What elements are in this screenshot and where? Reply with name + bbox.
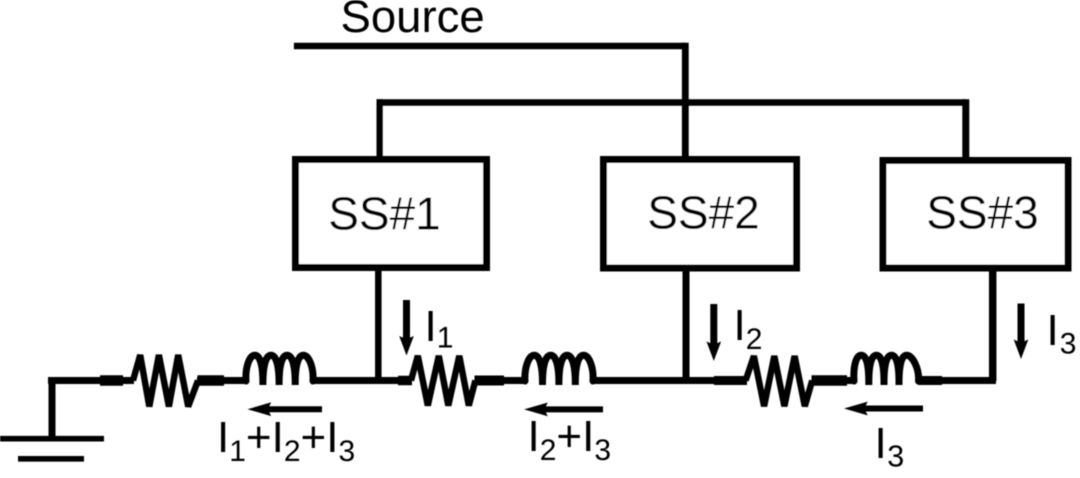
wire source vertical drop to SS#2 — [682, 43, 689, 157]
block SS#1 — [296, 160, 487, 268]
block SS#3 — [883, 161, 1068, 269]
wire SS#3 to ground bus — [989, 272, 997, 382]
resistor R1 — [133, 355, 198, 407]
wire bus drop to SS#1 — [377, 99, 383, 157]
wire distribution bus horizontal — [377, 99, 966, 106]
current arrow sum1 left — [248, 402, 323, 416]
junction blob after L3 — [918, 376, 942, 385]
wire source horizontal feeder — [294, 43, 686, 50]
ground stub wire — [49, 381, 56, 441]
wire SS#2 to ground bus — [683, 272, 690, 382]
svg-text:SS#3: SS#3 — [926, 187, 1039, 239]
ground bar 1 — [0, 436, 104, 442]
current arrow sum2 left — [524, 403, 603, 417]
svg-text:SS#1: SS#1 — [328, 187, 441, 239]
wire ground bus segment f — [812, 377, 856, 384]
junction blob after R3 — [812, 375, 848, 386]
wire ground bus segment e — [592, 377, 747, 384]
junction blob before R1 — [100, 375, 123, 386]
resistor R2 — [411, 356, 475, 406]
junction blob after R2 — [475, 376, 505, 386]
wire ground bus segment g — [918, 377, 996, 384]
current arrow sum3 left — [844, 402, 923, 416]
wire SS#1 to ground bus — [375, 271, 382, 381]
svg-text:SS#2: SS#2 — [647, 187, 760, 239]
junction blob after R1 — [198, 375, 225, 386]
block SS#2 — [604, 160, 797, 269]
wire ground bus segment d — [475, 377, 527, 384]
svg-text:Source: Source — [341, 0, 485, 42]
wire ground bus segment b — [197, 377, 247, 384]
resistor R3 — [746, 356, 813, 406]
wire ground bus segment a — [48, 377, 134, 384]
junction blob before R3 — [714, 376, 747, 385]
inductor L2 — [525, 355, 593, 385]
inductor L1 — [246, 355, 313, 385]
current arrow I3 down — [1014, 304, 1029, 360]
junction blob before R2 — [398, 376, 412, 386]
current arrow I2 down — [707, 304, 722, 361]
current arrow I1 down — [399, 300, 414, 356]
wire ground bus segment c — [312, 377, 412, 384]
ground bar 2 — [18, 456, 84, 462]
inductor L3 — [854, 355, 919, 385]
wire bus drop to SS#3 — [962, 99, 969, 158]
